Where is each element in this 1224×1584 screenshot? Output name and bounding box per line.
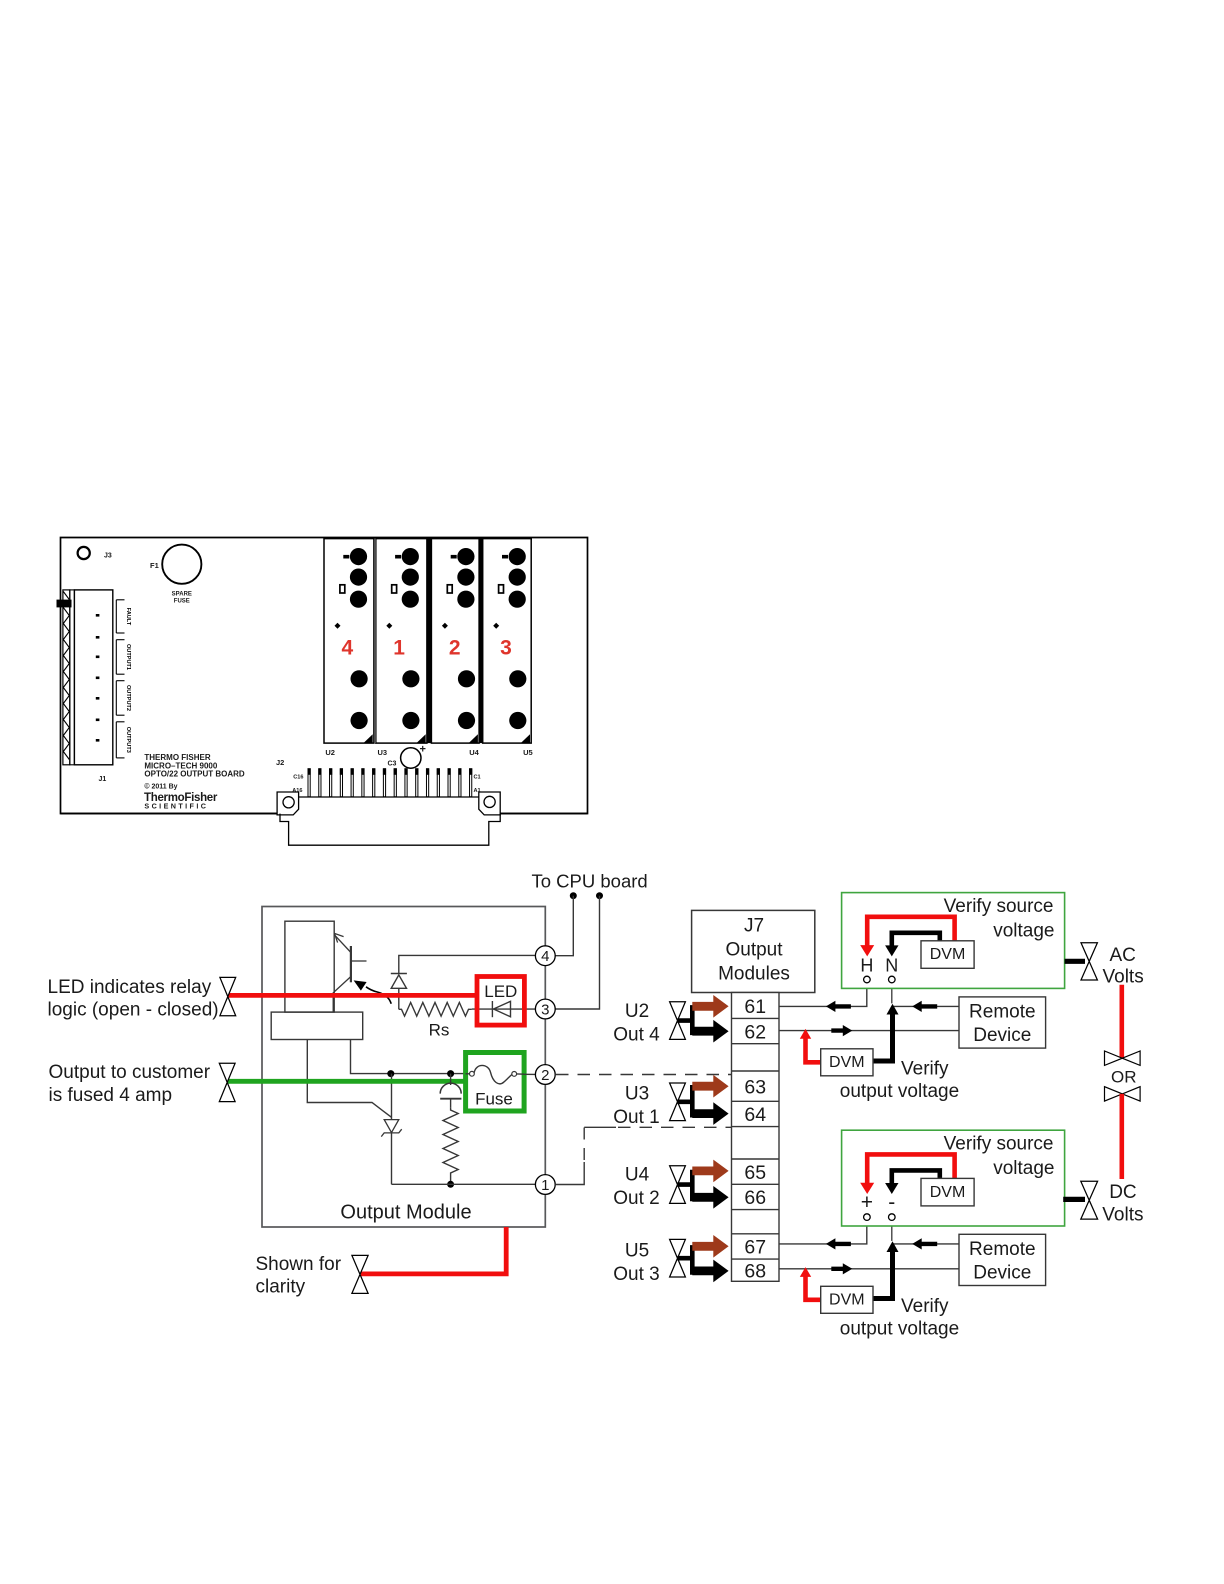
- relay module U2 (channel 4): [324, 539, 374, 744]
- svg-text:62: 62: [744, 1021, 766, 1043]
- channel U3 neutral feed arrow (black): [692, 1102, 728, 1125]
- DVM1 probe lead (red): [806, 1037, 821, 1063]
- DVM2 probe lead (red): [806, 1275, 821, 1300]
- svg-text:1: 1: [393, 637, 405, 660]
- svg-text:63: 63: [744, 1077, 766, 1099]
- wire remote device to junction row 61: [893, 1005, 960, 1007]
- channel U3 junction: [678, 1085, 693, 1118]
- svg-text:LED: LED: [484, 982, 517, 1001]
- svg-text:Rs: Rs: [429, 1020, 450, 1039]
- DVM1 source red lead: [867, 917, 954, 947]
- svg-text:-: -: [888, 1191, 895, 1214]
- LED highlight box: [477, 977, 524, 1026]
- svg-text:Out 3: Out 3: [613, 1264, 659, 1285]
- wire D1 anode down to Rs row: [398, 988, 400, 1009]
- DVM2 (source): [921, 1178, 974, 1206]
- DVM2 probe lead (black thick): [873, 1250, 893, 1299]
- svg-text:OPTO/22 OUTPUT BOARD: OPTO/22 OUTPUT BOARD: [144, 770, 245, 779]
- MOV / snubber: [440, 1074, 461, 1108]
- svg-text:U3: U3: [625, 1084, 649, 1105]
- svg-text:Output to customer: Output to customer: [49, 1062, 211, 1083]
- svg-text:H: H: [860, 955, 873, 975]
- OR bowtie lower: [1105, 1087, 1141, 1101]
- svg-text:2: 2: [449, 637, 461, 660]
- channel U3 hot feed arrow (brown): [692, 1075, 728, 1098]
- wire coil left pin to TVS branch: [307, 1040, 391, 1118]
- J2 pin labels: [292, 775, 480, 795]
- svg-text:C16: C16: [293, 775, 303, 781]
- svg-text:J2: J2: [276, 758, 284, 767]
- svg-text:66: 66: [744, 1187, 766, 1209]
- Remote Device 2: [959, 1234, 1046, 1285]
- svg-text:Out 2: Out 2: [613, 1188, 659, 1209]
- channel U4 junction: [678, 1170, 693, 1202]
- verify source voltage box 1: [842, 893, 1065, 989]
- LED callout text: [48, 977, 219, 1021]
- verify output voltage label: [840, 1059, 959, 1102]
- svg-text:Out 1: Out 1: [613, 1107, 659, 1128]
- svg-text:Volts: Volts: [1102, 1204, 1143, 1225]
- svg-text:To CPU board: To CPU board: [532, 870, 648, 891]
- channel U5 / Out 3 label: [613, 1241, 659, 1286]
- svg-text:DVM: DVM: [829, 1292, 865, 1309]
- svg-text:DVM: DVM: [930, 1184, 966, 1201]
- DVM1 source black lead: [892, 933, 940, 947]
- channel U5 bowtie: [670, 1239, 686, 1277]
- relay modules top rail: [324, 537, 533, 540]
- svg-text:OUTPUT2: OUTPUT2: [125, 685, 131, 711]
- svg-text:N: N: [885, 955, 898, 975]
- svg-text:OUTPUT1: OUTPUT1: [125, 644, 131, 670]
- svg-text:Output: Output: [725, 940, 783, 961]
- relay module U5 (channel 3): [483, 539, 532, 744]
- svg-text:U2: U2: [325, 748, 335, 757]
- channel U4 / Out 2 label: [613, 1165, 659, 1210]
- svg-text:U2: U2: [625, 1001, 649, 1022]
- connector J1: [57, 590, 113, 765]
- relay module U4 (channel 2): [431, 539, 479, 744]
- svg-text:Out 4: Out 4: [613, 1025, 660, 1046]
- dashed wire terminal 2 to 63/64: [556, 1074, 731, 1076]
- svg-text:C3: C3: [388, 761, 397, 768]
- DVM1 probe lead (black thick): [873, 1012, 893, 1061]
- DC Volts label: [1102, 1182, 1143, 1226]
- channel U2 hot feed arrow (brown): [692, 995, 728, 1018]
- source terminal labels: [860, 955, 898, 975]
- svg-text:OUTPUT3: OUTPUT3: [125, 727, 131, 753]
- svg-text:output voltage: output voltage: [840, 1319, 959, 1340]
- LED diode: [492, 1001, 510, 1017]
- svg-text:Device: Device: [973, 1025, 1031, 1046]
- J1 signal brackets and labels: [116, 600, 131, 758]
- mounting hole J3: [78, 547, 112, 560]
- svg-text:AC: AC: [1110, 945, 1136, 966]
- svg-text:A1: A1: [474, 788, 481, 794]
- svg-text:68: 68: [744, 1261, 766, 1283]
- channel U2 neutral feed arrow (black): [692, 1020, 728, 1043]
- LED callout bowtie: [220, 977, 236, 1015]
- wire terminal 3 to CPU: [555, 896, 599, 1009]
- connector J7 box: [692, 910, 815, 992]
- PCB board outline: [61, 538, 588, 814]
- AC volts stub: [1065, 959, 1085, 964]
- svg-text:SPARE: SPARE: [172, 592, 192, 598]
- svg-text:4: 4: [341, 637, 353, 660]
- channel U2 bowtie: [670, 1002, 686, 1040]
- board bottom edge segments beside J2: [61, 813, 588, 815]
- svg-text:clarity: clarity: [256, 1276, 306, 1297]
- junction node A: [387, 1070, 394, 1077]
- wire terminal row 67 to source H: [779, 1219, 867, 1244]
- AC bowtie: [1081, 943, 1097, 980]
- svg-text:Verify: Verify: [901, 1296, 949, 1317]
- svg-text:© 2011 By: © 2011 By: [144, 783, 177, 791]
- separator bars between modules: [375, 539, 483, 744]
- svg-text:FAULT: FAULT: [125, 608, 131, 626]
- svg-text:DC: DC: [1109, 1182, 1136, 1203]
- svg-text:3: 3: [500, 637, 512, 660]
- svg-text:+: +: [861, 1191, 873, 1214]
- relay module U3 (channel 1): [376, 539, 427, 744]
- svg-text:is fused 4 amp: is fused 4 amp: [49, 1085, 173, 1106]
- svg-text:output voltage: output voltage: [840, 1081, 959, 1102]
- DVM2 source black lead: [892, 1170, 940, 1184]
- diode D1: [391, 974, 407, 989]
- svg-text:Verify: Verify: [901, 1059, 949, 1080]
- svg-text:Fuse: Fuse: [475, 1089, 513, 1108]
- channel U2 / Out 4 label: [613, 1001, 660, 1046]
- svg-text:voltage: voltage: [993, 921, 1054, 942]
- DC volts stub: [1063, 1197, 1085, 1202]
- thin drop from N circle: [891, 1219, 893, 1241]
- shown-for-clarity pointer (red): [361, 1227, 506, 1274]
- svg-text:Remote: Remote: [969, 1002, 1036, 1023]
- svg-text:67: 67: [744, 1237, 766, 1259]
- transistor Q1: [333, 933, 366, 1012]
- channel U4 neutral feed arrow (black): [692, 1186, 728, 1209]
- LED callout pointer (red): [228, 993, 477, 998]
- junction node B: [447, 1070, 454, 1077]
- channel U2 junction: [678, 1005, 693, 1035]
- wire Rs to terminal 3: [472, 1008, 536, 1010]
- svg-text:U5: U5: [523, 748, 533, 757]
- DVM1 (output): [821, 1049, 873, 1076]
- svg-text:DVM: DVM: [930, 946, 966, 963]
- terminal 1: [535, 1175, 555, 1195]
- resistor Rs: [399, 1003, 472, 1017]
- svg-text:4: 4: [541, 948, 549, 965]
- terminal numbers: [744, 996, 766, 1283]
- channel U4 hot feed arrow (brown): [692, 1160, 728, 1183]
- terminal strip J7 cells: [732, 993, 780, 1282]
- wire D1 cathode to terminal 4: [399, 955, 536, 973]
- fuse F (in green box): [466, 1053, 524, 1112]
- svg-text:61: 61: [744, 996, 766, 1018]
- channel U5 hot feed arrow (brown): [692, 1235, 728, 1258]
- source terminal labels: [861, 1191, 896, 1214]
- svg-text:voltage: voltage: [993, 1158, 1054, 1179]
- wire remote device to junction row 67: [893, 1243, 960, 1245]
- connector J2 pins: [308, 769, 472, 797]
- svg-text:65: 65: [744, 1162, 766, 1184]
- svg-text:C1: C1: [474, 775, 481, 781]
- svg-text:Output Module: Output Module: [340, 1202, 471, 1224]
- verify source voltage box 2: [842, 1130, 1065, 1226]
- svg-text:F1: F1: [150, 561, 159, 570]
- OR bowtie upper: [1105, 1051, 1141, 1065]
- svg-text:+: +: [420, 744, 426, 756]
- silkscreen text block: [144, 753, 245, 811]
- red link AC to OR: [1120, 985, 1125, 1058]
- svg-text:Verify source: Verify source: [944, 896, 1054, 917]
- arrow toward strip on row 61: [826, 1001, 851, 1012]
- svg-text:logic (open - closed): logic (open - closed): [48, 999, 219, 1020]
- channel U5 junction: [678, 1245, 693, 1275]
- AC Volts label: [1103, 945, 1144, 988]
- wire coil to fuse row: [351, 1040, 466, 1074]
- svg-text:OR: OR: [1111, 1067, 1137, 1086]
- source terminal circles: [864, 1214, 871, 1221]
- terminal 4: [535, 946, 555, 966]
- terminal 2: [535, 1065, 555, 1085]
- svg-text:1: 1: [541, 1177, 549, 1194]
- svg-text:3: 3: [541, 1001, 549, 1018]
- thin drop from N circle: [891, 983, 893, 1004]
- junction node C: [447, 1181, 454, 1188]
- DVM2 (output): [821, 1286, 873, 1313]
- wire fuse to terminal 2: [524, 1073, 535, 1075]
- DC bowtie: [1081, 1181, 1098, 1219]
- wire TVS branch vertical: [391, 1074, 393, 1185]
- resistor R (bleed): [443, 1107, 458, 1184]
- svg-text:U4: U4: [625, 1165, 650, 1186]
- svg-text:Modules: Modules: [718, 963, 790, 984]
- svg-text:FUSE: FUSE: [174, 599, 190, 605]
- wire terminal row 61 to source H: [779, 983, 867, 1007]
- Remote Device 1: [959, 997, 1046, 1048]
- svg-text:U5: U5: [625, 1241, 649, 1262]
- TVS diode D2: [381, 1120, 401, 1137]
- output callout (green): [227, 1079, 464, 1084]
- DVM1 (source): [921, 941, 974, 969]
- CPU wire nodes: [570, 892, 577, 899]
- red link OR to DC: [1120, 1094, 1125, 1179]
- source terminal circles: [864, 976, 871, 983]
- dashed wire terminal 1 to 64 row: [555, 1127, 731, 1184]
- svg-text:A16: A16: [292, 788, 302, 794]
- svg-text:Verify source: Verify source: [944, 1133, 1054, 1154]
- svg-text:SCIENTIFIC: SCIENTIFIC: [144, 802, 208, 811]
- svg-text:Device: Device: [973, 1263, 1031, 1284]
- svg-text:Volts: Volts: [1103, 966, 1144, 987]
- Output Module box: [262, 907, 545, 1228]
- svg-text:DVM: DVM: [829, 1054, 865, 1071]
- arrow toward strip on row 67: [826, 1238, 851, 1249]
- svg-text:LED indicates relay: LED indicates relay: [48, 977, 212, 998]
- wire to terminal 1: [392, 1183, 536, 1185]
- module reference labels: [325, 748, 532, 757]
- connector J2 body: [277, 792, 500, 845]
- svg-text:2: 2: [541, 1067, 549, 1084]
- svg-text:Shown for: Shown for: [256, 1254, 342, 1275]
- svg-text:U3: U3: [378, 748, 388, 757]
- svg-text:J7: J7: [744, 916, 764, 937]
- channel U3 / Out 1 label: [613, 1084, 659, 1129]
- wire terminal 4 to CPU: [555, 896, 573, 956]
- relay actuation arrow: [354, 980, 392, 1003]
- svg-text:J1: J1: [99, 776, 107, 783]
- svg-text:U4: U4: [469, 748, 479, 757]
- channel U3 bowtie: [670, 1083, 686, 1121]
- channel U4 bowtie: [670, 1166, 686, 1204]
- svg-text:64: 64: [744, 1104, 766, 1126]
- verify output voltage label: [840, 1296, 959, 1339]
- svg-text:J3: J3: [104, 553, 112, 560]
- wire terminal row 68 to remote device: [779, 1268, 959, 1270]
- wire terminal row 62 to remote device: [779, 1030, 959, 1032]
- channel U5 neutral feed arrow (black): [692, 1260, 728, 1283]
- DVM2 source red lead: [867, 1154, 954, 1184]
- svg-text:Remote: Remote: [969, 1239, 1036, 1260]
- spare fuse F1: [150, 545, 201, 605]
- terminal 3: [535, 999, 555, 1019]
- capacitor C3: [388, 744, 426, 769]
- relay coil box: [271, 921, 363, 1039]
